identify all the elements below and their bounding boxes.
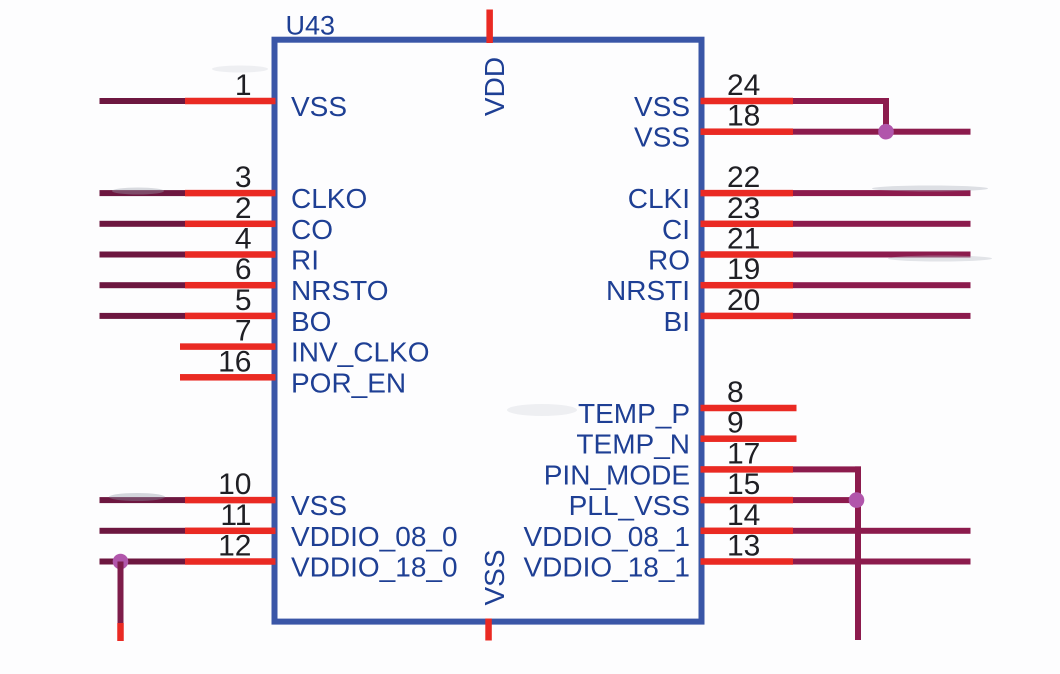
pin stub — [701, 558, 794, 565]
wire net segment — [100, 252, 186, 258]
pin stub bottom-left — [117, 623, 124, 641]
svg-text:CLKI: CLKI — [628, 183, 690, 214]
svg-text:PIN_MODE: PIN_MODE — [544, 459, 690, 490]
svg-text:5: 5 — [235, 284, 252, 317]
pin 20 BI (right) — [664, 284, 971, 337]
svg-text:VDD: VDD — [479, 57, 510, 116]
wire net segment — [100, 190, 186, 196]
wire net segment — [793, 528, 971, 534]
wire net segment — [100, 313, 186, 319]
svg-text:11: 11 — [220, 499, 251, 532]
svg-text:23: 23 — [727, 192, 760, 225]
wire net segment — [793, 221, 971, 227]
svg-text:BO: BO — [291, 306, 331, 337]
wire net segment — [100, 98, 186, 104]
svg-text:VDDIO_08_1: VDDIO_08_1 — [523, 521, 690, 552]
pin stub — [701, 98, 794, 105]
wire vertical run — [855, 466, 861, 640]
svg-text:17: 17 — [727, 437, 760, 470]
pin 5 BO (left) — [100, 284, 332, 337]
pin 19 NRSTI (right) — [606, 253, 971, 306]
svg-text:9: 9 — [727, 407, 744, 440]
svg-text:VSS: VSS — [291, 490, 347, 521]
pin 1 VSS (left) — [100, 69, 348, 122]
svg-text:VSS: VSS — [634, 91, 690, 122]
svg-text:8: 8 — [727, 376, 744, 409]
pin 2 CO (left) — [100, 192, 334, 245]
pin 10 VSS (left) — [100, 468, 348, 521]
pin stub — [701, 466, 794, 473]
pin stub — [701, 221, 794, 228]
pin stub — [185, 282, 276, 289]
svg-text:21: 21 — [727, 223, 760, 256]
pin 8 TEMP_P (right, unconnected stub) — [578, 376, 797, 429]
pin 18 VSS (right) — [634, 100, 971, 153]
svg-text:VSS: VSS — [634, 122, 690, 153]
svg-text:PLL_VSS: PLL_VSS — [569, 490, 690, 521]
svg-text:RO: RO — [648, 245, 690, 276]
pin 24 VSS (right, wire corners down to pin 18 net) — [634, 69, 889, 132]
svg-text:3: 3 — [235, 161, 252, 194]
svg-text:TEMP_P: TEMP_P — [578, 398, 690, 429]
wire net segment — [100, 528, 186, 534]
wire net segment — [100, 559, 186, 565]
svg-text:18: 18 — [727, 100, 760, 133]
pin stub — [185, 497, 276, 504]
wire net segment — [793, 313, 971, 319]
wire net segment — [793, 559, 971, 565]
pin stub — [185, 558, 276, 565]
svg-text:2: 2 — [235, 192, 252, 225]
svg-text:10: 10 — [218, 468, 251, 501]
svg-text:NRSTI: NRSTI — [606, 275, 690, 306]
wire net segment — [100, 221, 186, 227]
pin stub — [185, 313, 276, 320]
pin VDD top stub — [486, 10, 493, 44]
pin 3 CLKO (left) — [100, 161, 368, 214]
wire net segment — [100, 282, 186, 288]
svg-text:CO: CO — [291, 214, 333, 245]
pin stub — [185, 221, 276, 228]
svg-text:CLKO: CLKO — [291, 183, 367, 214]
wire net segment — [100, 497, 186, 503]
pin stub — [701, 497, 794, 504]
pin stub — [701, 190, 794, 197]
svg-text:VSS: VSS — [479, 549, 510, 605]
wire net segment — [793, 190, 971, 196]
svg-text:VDDIO_18_0: VDDIO_18_0 — [291, 552, 458, 583]
svg-text:16: 16 — [218, 345, 251, 378]
svg-text:19: 19 — [727, 253, 760, 286]
pin stub — [701, 128, 794, 135]
pin 22 CLKI (right) — [628, 161, 971, 214]
pin stub — [185, 190, 276, 197]
IC body U43 — [275, 40, 702, 622]
pin stub — [185, 528, 276, 535]
svg-text:7: 7 — [235, 315, 252, 348]
svg-text:INV_CLKO: INV_CLKO — [291, 337, 430, 368]
wire vertical drop from pin12 net — [118, 562, 124, 624]
svg-text:POR_EN: POR_EN — [291, 367, 406, 398]
pin 23 CI (right) — [662, 192, 971, 245]
svg-text:13: 13 — [727, 530, 760, 563]
svg-text:CI: CI — [662, 214, 690, 245]
wire horizontal — [793, 466, 861, 472]
pin 6 NRSTO (left) — [100, 253, 389, 306]
svg-text:24: 24 — [727, 69, 760, 102]
svg-text:TEMP_N: TEMP_N — [576, 429, 690, 460]
svg-text:VDDIO_08_0: VDDIO_08_0 — [291, 521, 458, 552]
pin 7 INV_CLKO (left, unconnected stub) — [180, 315, 430, 368]
pin 15 PLL_VSS (right) — [569, 468, 857, 521]
pin stub — [180, 374, 276, 381]
pin 13 VDDIO_18_1 (right) — [523, 530, 970, 583]
svg-text:22: 22 — [727, 161, 760, 194]
pin stub — [701, 251, 794, 258]
pin 14 VDDIO_08_1 (right) — [523, 499, 970, 552]
pin stub — [185, 98, 276, 105]
wire net segment — [793, 129, 971, 135]
pin 21 RO (right) — [648, 223, 971, 276]
junction dot pin12 net (left) — [113, 554, 129, 570]
svg-text:12: 12 — [218, 530, 251, 563]
junction dot pin24/pin18 net — [878, 124, 894, 140]
wire vertical drop — [883, 98, 889, 132]
pin VSS bottom stub — [485, 619, 492, 641]
pin stub — [701, 282, 794, 289]
wire net segment — [793, 252, 971, 258]
pin 9 TEMP_N (right, unconnected stub) — [576, 407, 796, 460]
wire net segment — [793, 282, 971, 288]
svg-text:NRSTO: NRSTO — [291, 275, 389, 306]
svg-text:RI: RI — [291, 245, 319, 276]
svg-text:1: 1 — [235, 69, 252, 102]
wire horizontal — [793, 98, 889, 104]
svg-text:6: 6 — [235, 253, 252, 286]
pin stub — [701, 435, 797, 442]
pin stub — [701, 313, 794, 320]
pin 17 PIN_MODE (right, wire corners down) — [544, 437, 861, 640]
pin 4 RI (left) — [100, 223, 320, 276]
pin 11 VDDIO_08_0 (left) — [100, 499, 458, 552]
svg-text:4: 4 — [235, 223, 252, 256]
svg-text:U43: U43 — [286, 11, 336, 41]
svg-text:BI: BI — [664, 306, 690, 337]
junction dot pin15/pin17 net — [849, 492, 865, 508]
pin stub — [701, 405, 797, 412]
pin 16 POR_EN (left, unconnected stub) — [180, 345, 406, 398]
svg-text:20: 20 — [727, 284, 760, 317]
wire net segment — [793, 497, 857, 503]
pin stub — [185, 251, 276, 258]
svg-text:15: 15 — [727, 468, 760, 501]
svg-text:14: 14 — [727, 499, 760, 532]
svg-text:VSS: VSS — [291, 91, 347, 122]
pin 12 VDDIO_18_0 (left) — [100, 530, 458, 583]
pin stub — [180, 343, 276, 350]
pin stub — [701, 528, 794, 535]
svg-text:VDDIO_18_1: VDDIO_18_1 — [523, 552, 690, 583]
